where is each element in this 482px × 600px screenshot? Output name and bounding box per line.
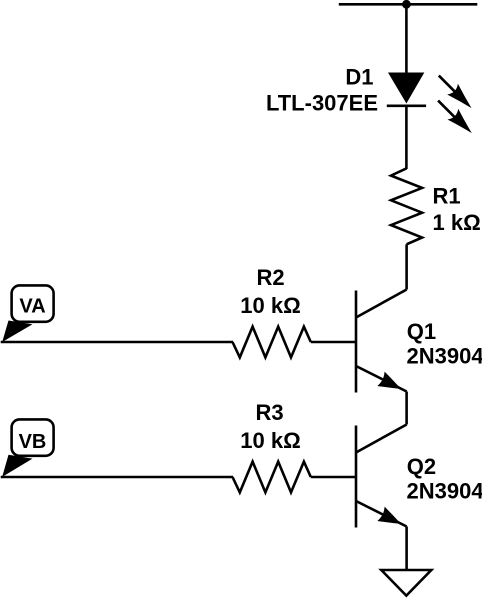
resistor R1 (391, 168, 422, 244)
transistor Q2 emitter arrow (377, 507, 404, 531)
wire VB node to Q2 base (1, 476, 233, 479)
resistor R3 (233, 462, 311, 493)
transistor Q2 collector (356, 425, 407, 453)
svg-text:2N3904: 2N3904 (407, 344, 482, 369)
wire LED cathode to R1 (405, 106, 408, 169)
LED light arrow 2 (438, 101, 477, 139)
node junction dot (402, 0, 411, 9)
net label VB bubble (2, 419, 53, 477)
wire R3 to Q2 base (311, 476, 356, 479)
svg-text:10 kΩ: 10 kΩ (240, 293, 300, 318)
LED D1 triangle (388, 73, 424, 104)
svg-text:VB: VB (19, 431, 47, 453)
wire rail to LED anode (405, 4, 408, 73)
svg-text:LTL-307EE: LTL-307EE (266, 91, 378, 116)
wire Q1 emitter to Q2 collector (405, 392, 408, 425)
LED D1 cathode bar (387, 105, 426, 108)
LED light arrow 1 (439, 76, 477, 114)
svg-text:10 kΩ: 10 kΩ (240, 428, 300, 453)
wire Q2 emitter to ground (405, 527, 408, 571)
resistor R2 (233, 327, 311, 358)
wire R1 to Q1 collector (405, 244, 408, 289)
net label VA bubble (2, 285, 53, 342)
svg-text:Q1: Q1 (407, 319, 436, 344)
svg-text:R1: R1 (433, 184, 461, 209)
transistor Q1 emitter arrow (377, 372, 404, 396)
wire R2 to Q1 base (311, 341, 356, 344)
svg-text:R2: R2 (256, 265, 284, 290)
transistor Q1 base bar (355, 291, 358, 393)
ground (381, 570, 431, 596)
transistor Q1 emitter (356, 366, 407, 392)
svg-text:2N3904: 2N3904 (407, 479, 482, 504)
transistor Q2 emitter (356, 501, 407, 527)
svg-text:VA: VA (19, 295, 45, 317)
transistor Q1 collector (356, 290, 407, 318)
wire top power rail (339, 3, 478, 6)
svg-text:R3: R3 (255, 400, 283, 425)
svg-text:Q2: Q2 (407, 454, 436, 479)
svg-text:D1: D1 (345, 65, 373, 90)
wire VA node to Q1 base (1, 341, 233, 344)
svg-text:1 kΩ: 1 kΩ (433, 210, 481, 235)
transistor Q2 base bar (355, 426, 358, 528)
